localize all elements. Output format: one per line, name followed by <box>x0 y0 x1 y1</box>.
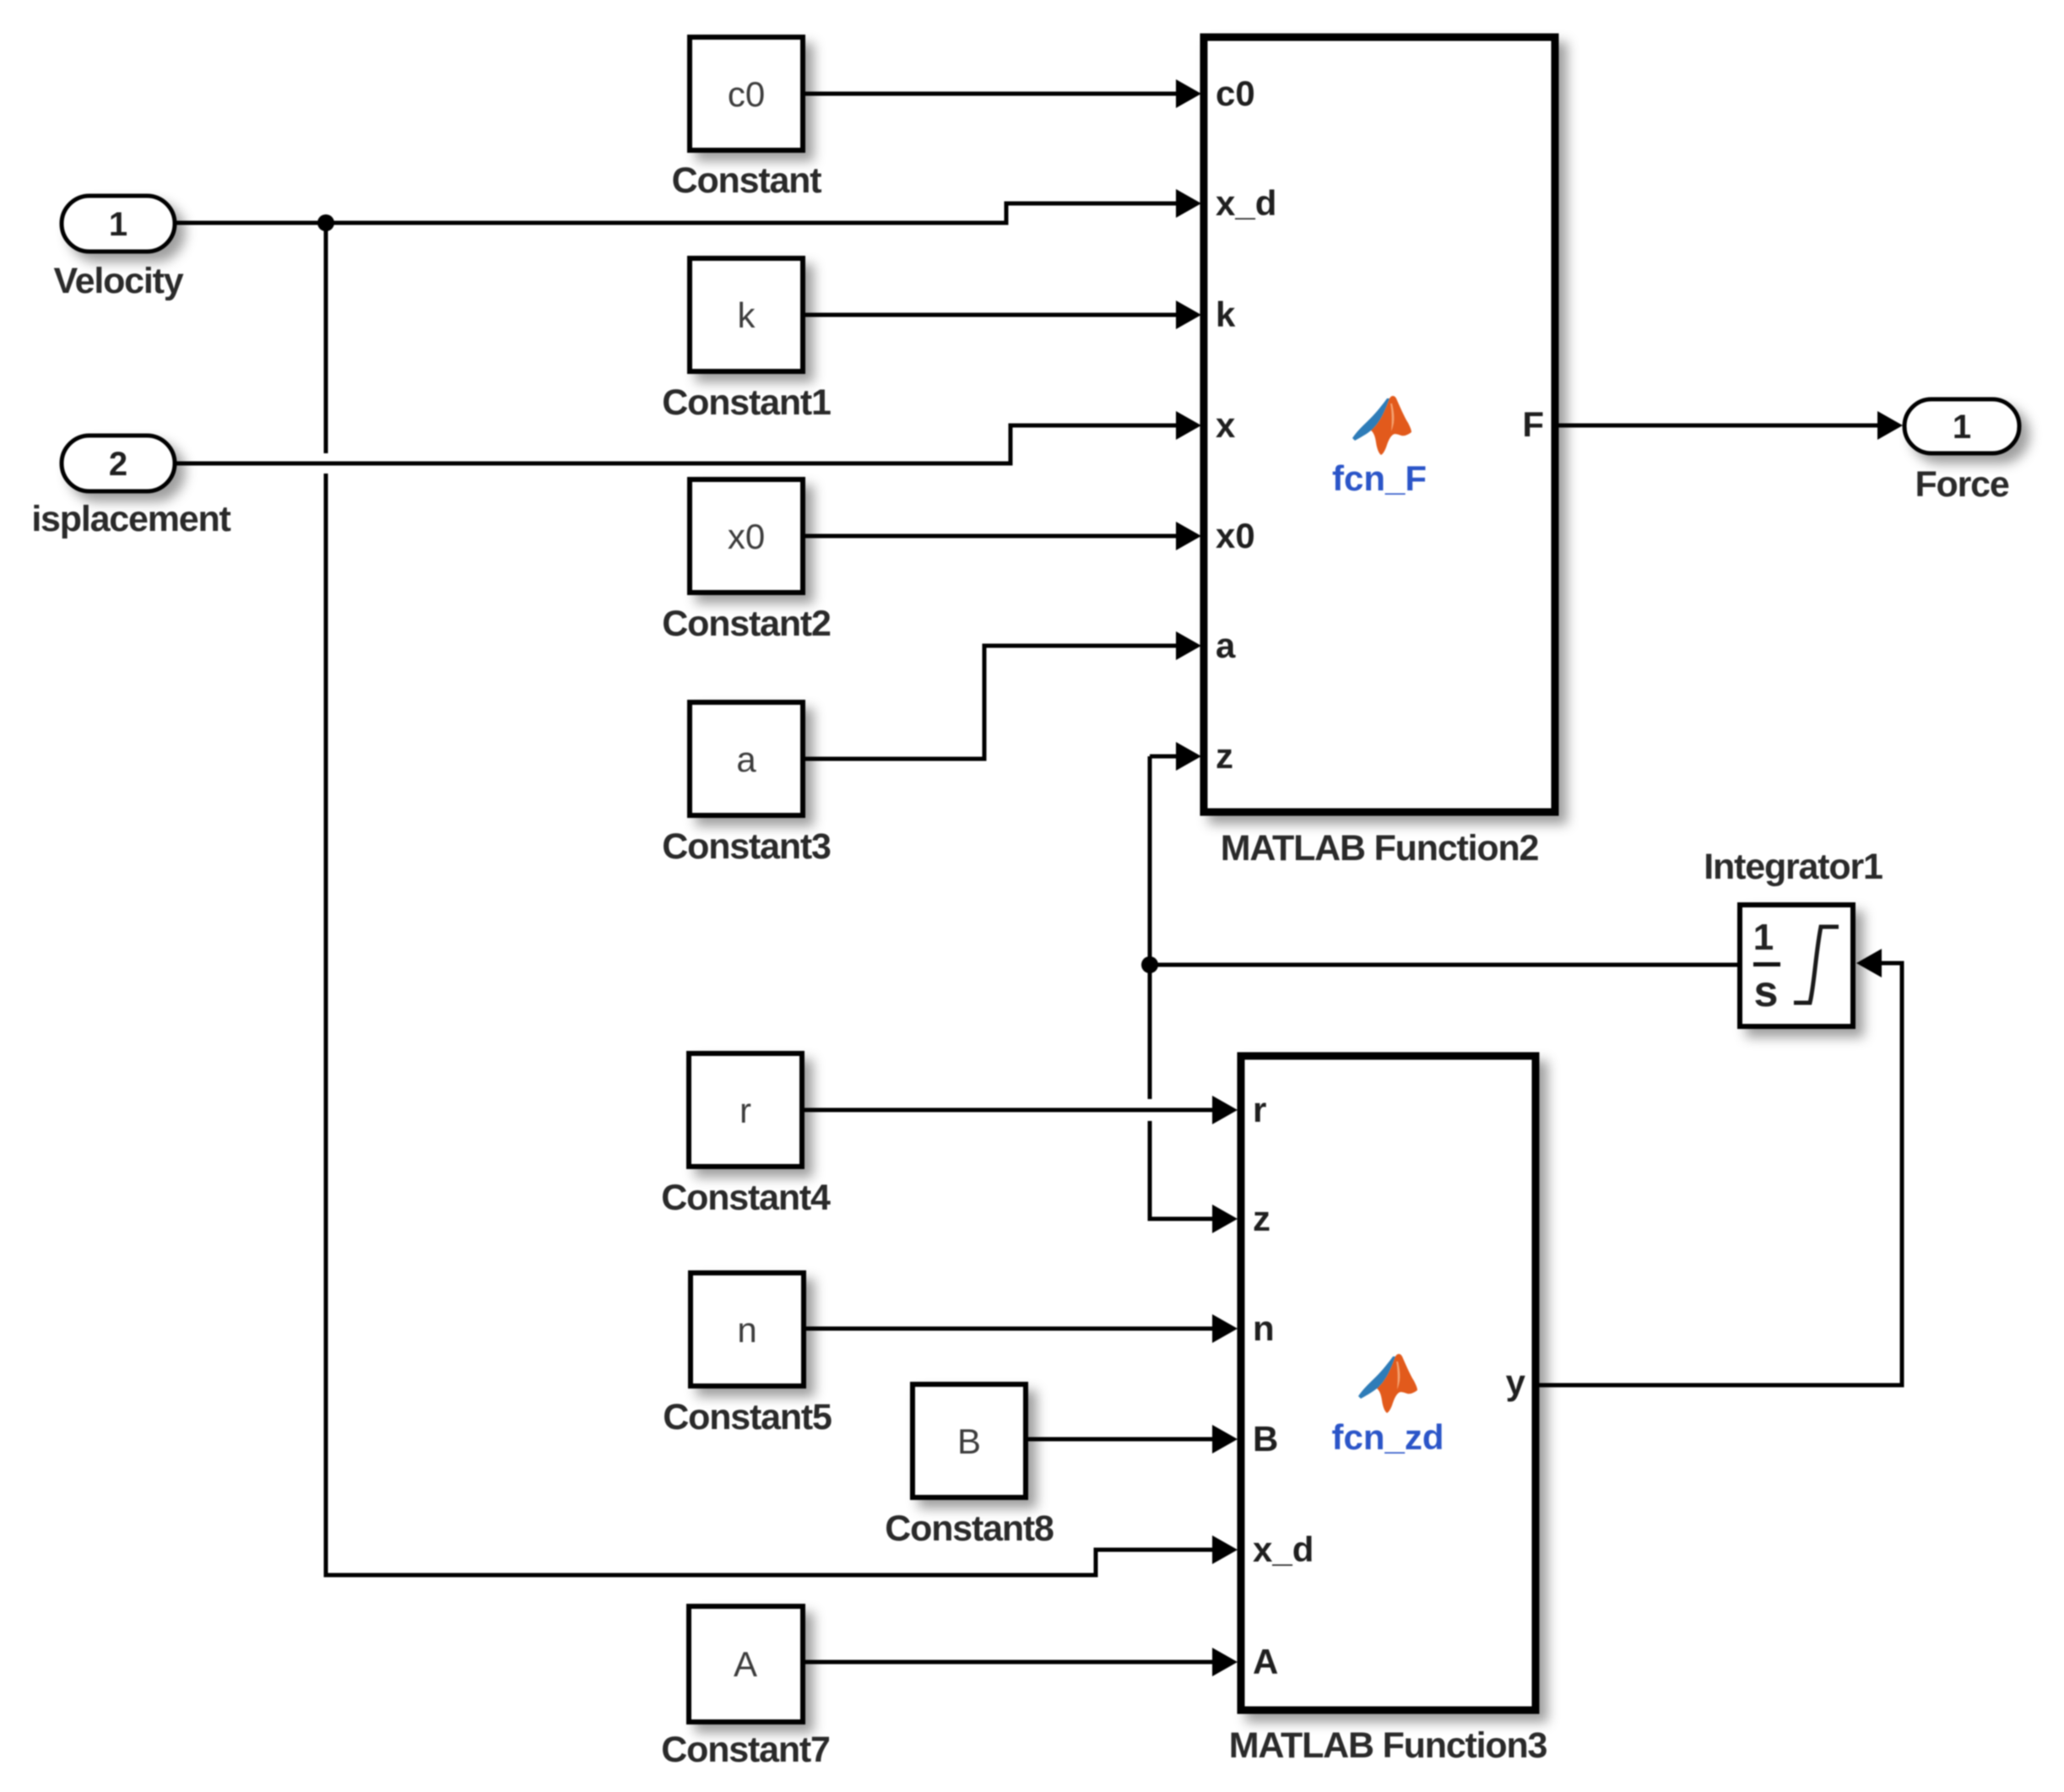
wire B to MATLAB Function3 B <box>1026 1437 1216 1442</box>
constant block r <box>689 1053 802 1167</box>
arrow into x_d port of MATLAB Function3 <box>1212 1535 1238 1564</box>
wire F output to Force outport <box>1555 424 1883 428</box>
svg-text:s: s <box>1754 967 1779 1016</box>
svg-text:Force: Force <box>1915 464 2008 505</box>
constant block c0 <box>690 37 803 150</box>
svg-text:a: a <box>1216 625 1236 665</box>
MATLAB logo in Function3 <box>1358 1354 1417 1413</box>
svg-text:1: 1 <box>109 206 127 243</box>
constant block k <box>690 258 803 371</box>
integrator integral sign <box>1794 927 1839 1003</box>
wire n to MATLAB Function3 n <box>804 1327 1216 1331</box>
arrow into x_d port <box>1176 189 1201 218</box>
wire z vertical upper segment (gap at r crossing) <box>1148 756 1152 1099</box>
wire velocity branch down (upper segment, gap at displacement crossing) <box>324 223 328 453</box>
constant block x0 <box>690 479 803 593</box>
arrow into k port <box>1176 300 1201 329</box>
svg-text:2: 2 <box>109 446 127 483</box>
svg-text:c0: c0 <box>1216 73 1255 113</box>
svg-text:z: z <box>1253 1199 1270 1238</box>
svg-text:Constant1: Constant1 <box>662 382 831 423</box>
svg-text:x0: x0 <box>728 517 765 556</box>
svg-text:x0: x0 <box>1216 516 1255 555</box>
svg-text:x_d: x_d <box>1216 183 1276 223</box>
svg-text:MATLAB Function2: MATLAB Function2 <box>1221 828 1539 869</box>
svg-text:B: B <box>1253 1419 1278 1459</box>
svg-text:a: a <box>736 739 756 779</box>
svg-text:z: z <box>1216 736 1233 776</box>
svg-text:B: B <box>957 1421 981 1461</box>
inport 2 Displacement <box>62 436 175 491</box>
svg-text:r: r <box>1253 1090 1266 1129</box>
svg-text:fcn_zd: fcn_zd <box>1331 1417 1444 1457</box>
wire Displacement to x of MATLAB Function2 <box>175 425 1182 463</box>
svg-text:x_d: x_d <box>1253 1529 1314 1569</box>
svg-text:Constant7: Constant7 <box>661 1730 830 1770</box>
wire c0 to MATLAB Function2 c0 <box>803 92 1182 96</box>
arrow into A port <box>1212 1648 1238 1676</box>
svg-text:k: k <box>1216 295 1236 334</box>
arrow into z port of MATLAB Function3 <box>1212 1205 1238 1233</box>
svg-text:Constant8: Constant8 <box>885 1508 1054 1549</box>
arrow into B port <box>1212 1425 1238 1454</box>
svg-text:y: y <box>1506 1362 1526 1402</box>
svg-text:n: n <box>737 1310 756 1350</box>
constant block n <box>691 1273 804 1386</box>
wire k to MATLAB Function2 k <box>803 313 1182 317</box>
junction velocity node <box>317 214 334 231</box>
arrow into c0 port <box>1176 79 1201 108</box>
wire z net stub into MATLAB Function2 z <box>1150 755 1182 759</box>
svg-text:A: A <box>1253 1642 1278 1681</box>
svg-text:x: x <box>1216 405 1236 445</box>
svg-text:Constant5: Constant5 <box>663 1397 832 1437</box>
svg-text:Constant3: Constant3 <box>662 826 831 867</box>
svg-text:n: n <box>1253 1308 1275 1348</box>
MATLAB Function2 block <box>1204 37 1555 812</box>
arrow into r port <box>1212 1096 1238 1124</box>
arrow into x port <box>1176 411 1201 440</box>
wire z junction to Integrator1 output <box>1150 963 1740 967</box>
arrow into z port of MATLAB Function2 <box>1176 742 1201 771</box>
inport 1 Velocity <box>62 196 175 252</box>
wire y output to Integrator1 input <box>1536 963 1902 1385</box>
MATLAB logo in Function2 <box>1352 396 1411 455</box>
svg-text:A: A <box>734 1644 757 1684</box>
wire Velocity to x_d of MATLAB Function2 <box>175 203 1182 223</box>
svg-text:r: r <box>739 1091 751 1130</box>
arrow into n port <box>1212 1314 1238 1343</box>
arrow into a port <box>1176 631 1201 660</box>
wire z vertical lower segment <box>1150 1121 1216 1219</box>
Integrator1 block <box>1740 905 1853 1026</box>
svg-text:Constant2: Constant2 <box>662 604 831 644</box>
svg-text:Integrator1: Integrator1 <box>1704 847 1883 887</box>
svg-text:Constant4: Constant4 <box>661 1178 831 1218</box>
arrow into Integrator1 input (points left) <box>1856 949 1882 977</box>
wire A to MATLAB Function3 A <box>803 1660 1216 1665</box>
svg-text:Constant: Constant <box>672 160 822 201</box>
svg-text:MATLAB Function3: MATLAB Function3 <box>1229 1725 1547 1766</box>
constant block A <box>689 1606 803 1722</box>
svg-text:k: k <box>738 295 756 335</box>
wire x0 to MATLAB Function2 x0 <box>803 534 1182 539</box>
svg-text:isplacement: isplacement <box>31 499 230 539</box>
arrow into x0 port <box>1176 522 1201 550</box>
wire velocity branch down (lower segment) <box>326 474 1216 1575</box>
junction z node <box>1141 956 1158 973</box>
wire r to MATLAB Function3 r <box>801 1108 1216 1113</box>
MATLAB Function3 block <box>1241 1056 1536 1710</box>
svg-text:1: 1 <box>1753 917 1774 958</box>
integrator fraction bar <box>1753 962 1780 966</box>
svg-text:c0: c0 <box>728 74 765 114</box>
svg-text:fcn_F: fcn_F <box>1332 458 1427 498</box>
arrow into Force outport <box>1877 411 1903 440</box>
outport 1 Force <box>1904 399 2019 453</box>
svg-text:F: F <box>1522 404 1544 444</box>
svg-text:1: 1 <box>1953 409 1971 446</box>
constant block a <box>690 702 803 815</box>
svg-text:Velocity: Velocity <box>54 261 184 301</box>
wire a to MATLAB Function2 a <box>803 646 1182 759</box>
constant block B <box>913 1384 1026 1497</box>
